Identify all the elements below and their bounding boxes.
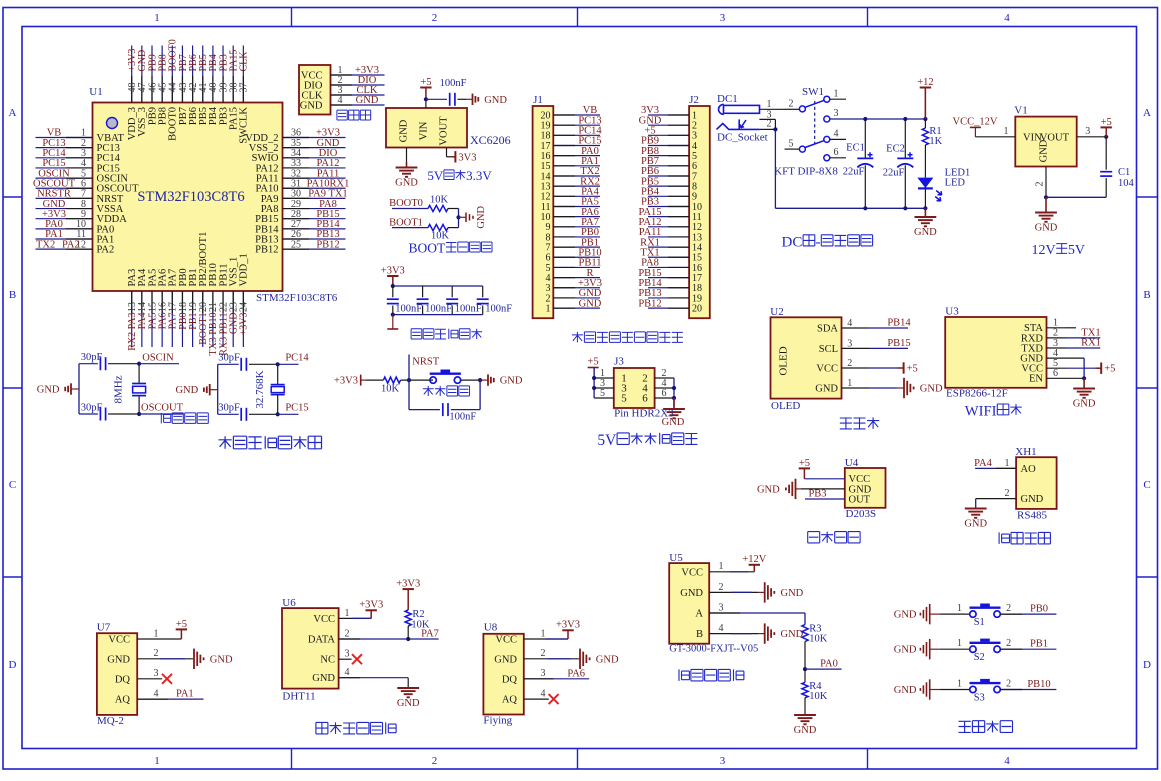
svg-text:D: D xyxy=(9,659,17,671)
svg-text:+5: +5 xyxy=(799,458,810,469)
U1 pin 46 PB9 / net PB9 xyxy=(151,46,153,103)
svg-text:4: 4 xyxy=(847,318,852,329)
wire to reset resistor xyxy=(366,379,383,381)
power GND left of 32k xyxy=(210,389,218,391)
svg-text:VCC: VCC xyxy=(108,635,130,646)
SW1 pin 2 lead xyxy=(785,108,800,110)
svg-text:LED: LED xyxy=(945,178,966,189)
U1 pin 47 VSS_3 / net GND xyxy=(141,46,143,103)
U7 VCC wire to +5 xyxy=(137,638,181,640)
svg-text:PA4: PA4 xyxy=(974,458,992,469)
power GND at BOOT junction rotated xyxy=(459,216,467,218)
title wind direction sensor xyxy=(679,669,689,681)
SW1 pin 3 xyxy=(824,116,830,122)
power GND right of U8 xyxy=(577,658,580,660)
svg-text:PA2: PA2 xyxy=(62,239,80,250)
svg-text:NRST: NRST xyxy=(412,357,439,368)
svg-text:GND: GND xyxy=(476,206,487,229)
J1 pin 15 / net PA1 xyxy=(553,165,600,167)
download port pin 2 DIO / net DIO xyxy=(331,84,385,86)
XH1 pin 2 GND xyxy=(976,498,1016,500)
svg-text:PB0: PB0 xyxy=(1030,604,1048,615)
MCU U1 STM32F103C8T6 body xyxy=(93,103,283,292)
svg-text:GND: GND xyxy=(920,384,943,395)
svg-text:GND: GND xyxy=(484,95,507,106)
svg-text:1: 1 xyxy=(847,378,852,389)
DC1 pin 3 wire xyxy=(759,118,775,120)
electrolytic capacitor EC2 22uF xyxy=(904,119,906,158)
ground below U6 xyxy=(407,687,409,690)
wire S2 to net PB1 xyxy=(1000,648,1056,650)
U5 B wire xyxy=(709,633,759,635)
svg-text:5V: 5V xyxy=(1068,243,1085,258)
svg-text:J2: J2 xyxy=(689,94,699,106)
svg-text:U8: U8 xyxy=(484,622,498,634)
svg-text:2: 2 xyxy=(1035,182,1046,187)
crystal Y 32.768K xyxy=(277,364,279,384)
U5 VCC wire to +12V xyxy=(709,571,754,573)
svg-text:PB14: PB14 xyxy=(887,318,911,329)
svg-text:6: 6 xyxy=(1053,368,1058,379)
power GND right of U7 xyxy=(192,658,195,660)
svg-text:+5: +5 xyxy=(176,619,187,630)
svg-text:3: 3 xyxy=(720,12,726,24)
ground below R4 xyxy=(804,714,806,716)
svg-text:NC: NC xyxy=(320,655,335,666)
svg-text:2: 2 xyxy=(345,628,350,639)
svg-text:PC14: PC14 xyxy=(285,353,309,364)
svg-text:+12V: +12V xyxy=(742,554,766,565)
U1 pin 8 VSSA / net GND xyxy=(36,208,93,210)
power GND left of 8MHz xyxy=(71,388,79,390)
svg-text:GND: GND xyxy=(210,654,233,665)
capacitor C1 104 xyxy=(1105,137,1107,170)
U6 DATA wire / net PA7 xyxy=(339,638,439,640)
J1 pin 13 / net RX2 xyxy=(553,185,600,187)
ground below U3 xyxy=(1083,378,1085,388)
resistor R4 10K xyxy=(804,669,806,682)
power +5 at U4 xyxy=(799,467,810,469)
U1 pin 22 PB11 / net RX3 PB11 xyxy=(222,291,224,347)
U1 pin 12 PA2 / net TX2 PA2 xyxy=(36,248,93,250)
U8 DQ wire / net PA6 xyxy=(524,678,589,680)
svg-text:XC6206: XC6206 xyxy=(470,133,511,147)
svg-text:3: 3 xyxy=(719,602,724,613)
filter caps bottom bus wire xyxy=(393,314,483,316)
J1 pin 8 / net PB0 xyxy=(553,236,600,238)
svg-text:25: 25 xyxy=(291,239,301,250)
svg-text:U2: U2 xyxy=(770,306,783,318)
svg-text:GND: GND xyxy=(1021,494,1044,505)
svg-text:1: 1 xyxy=(834,88,839,99)
J1 pin 20 / net VB xyxy=(553,114,600,116)
svg-text:4: 4 xyxy=(1004,755,1010,767)
svg-text:5: 5 xyxy=(600,388,605,399)
svg-text:12V: 12V xyxy=(1031,243,1055,258)
8MHz bottom wire and cap 30pF xyxy=(79,413,98,415)
U7 MQ-2 body xyxy=(97,633,137,715)
svg-text:2: 2 xyxy=(1006,638,1011,649)
svg-text:22uF: 22uF xyxy=(843,167,865,178)
title xiazaikou xyxy=(337,110,347,120)
svg-text:10K: 10K xyxy=(411,620,430,631)
U1 pin 6 OSCOUT / net OSCOUT xyxy=(36,187,93,189)
title reset circuit xyxy=(423,386,434,396)
svg-text:GT-3000-FXJT--V05: GT-3000-FXJT--V05 xyxy=(669,644,758,655)
U5 body xyxy=(669,563,709,644)
svg-text:U3: U3 xyxy=(945,306,959,318)
U8 VCC wire to +3V3 xyxy=(524,638,568,640)
svg-text:30pF: 30pF xyxy=(218,353,240,364)
svg-text:VCC: VCC xyxy=(495,635,517,646)
net PC14 wire xyxy=(278,363,299,365)
svg-text:SCL: SCL xyxy=(819,344,838,355)
8MHz top wire and cap 30pF xyxy=(79,363,98,365)
ground below DC bus xyxy=(924,208,926,217)
U1 pin 11 PA1 / net PA1 xyxy=(36,238,93,240)
svg-text:2: 2 xyxy=(847,358,852,369)
svg-text:DC1: DC1 xyxy=(717,93,738,105)
regulator U? XC6206 body xyxy=(386,108,467,148)
column tick marks xyxy=(291,8,293,27)
wire SW1 pin3 to +12 bus xyxy=(830,118,926,120)
J1 pin 7 / net PB1 xyxy=(553,246,600,248)
resistor R1 1K xyxy=(924,119,926,128)
svg-text:1K: 1K xyxy=(929,136,942,147)
svg-text:GND: GND xyxy=(794,725,817,736)
svg-text:VCC_12V: VCC_12V xyxy=(953,117,998,128)
svg-text:+12: +12 xyxy=(917,77,933,88)
svg-text:3: 3 xyxy=(720,755,726,767)
svg-text:30pF: 30pF xyxy=(218,403,240,414)
svg-text:5: 5 xyxy=(789,138,794,149)
J2 pin 1 / net 3V3 xyxy=(648,114,689,116)
resistor 10K reset xyxy=(383,377,400,383)
U1 pin 16 PA6 / net PA6 xyxy=(161,291,163,347)
DC socket lower contact symbol xyxy=(717,124,760,130)
svg-text:+3V3: +3V3 xyxy=(334,376,358,387)
filter capacitor 100nF #2 xyxy=(422,286,424,297)
svg-text:1: 1 xyxy=(1004,126,1009,137)
J2 pin 17 / net PB15 xyxy=(648,277,689,279)
svg-text:1: 1 xyxy=(1005,458,1010,469)
svg-text:STM32F103C8T6: STM32F103C8T6 xyxy=(256,292,338,304)
title display xyxy=(840,418,852,429)
svg-text:-: - xyxy=(816,235,821,251)
U1 pin 26 PB13 / net PB13 xyxy=(283,238,346,240)
download port pin 1 VCC / net +3V3 xyxy=(331,74,385,76)
U1 pin 13 PA3 / net RX2 PA3 xyxy=(131,291,133,347)
J2 pin 9 / net PB4 xyxy=(648,195,689,197)
U1 pin 43 PB7 / net PB7 xyxy=(181,46,183,103)
svg-text:GND: GND xyxy=(757,484,780,495)
title MCU pin headers xyxy=(572,332,583,343)
svg-text:10K: 10K xyxy=(809,691,828,702)
U1 pin 3 PC14 / net PC14 xyxy=(36,157,93,159)
wire DC to ground bus vertical xyxy=(774,129,776,208)
U6 GND wire xyxy=(339,677,409,679)
U3 VCC wire to +5 xyxy=(1066,367,1096,369)
svg-text:DQ: DQ xyxy=(115,674,131,685)
J2 pin 16 / net PA8 xyxy=(648,266,689,268)
DC socket barrel symbol xyxy=(724,105,760,113)
svg-text:DQ: DQ xyxy=(502,674,518,685)
J2 pin 12 / net PA12 xyxy=(648,226,689,228)
svg-text:AO: AO xyxy=(1021,464,1037,475)
svg-text:RX1: RX1 xyxy=(1081,338,1101,349)
push button S1 xyxy=(970,611,976,617)
svg-text:PB10: PB10 xyxy=(1027,679,1050,690)
svg-text:10K: 10K xyxy=(381,384,400,395)
U4 VCC pin wire xyxy=(804,478,844,480)
LED1 diode xyxy=(917,178,933,188)
svg-text:D: D xyxy=(1143,659,1151,671)
svg-text:DC: DC xyxy=(782,235,803,251)
svg-text:EN: EN xyxy=(1029,374,1043,385)
crystal 32k left vertical wire xyxy=(217,364,219,414)
svg-text:J1: J1 xyxy=(533,94,543,106)
32k bottom wire and cap 30pF xyxy=(218,413,239,415)
svg-text:C: C xyxy=(1143,479,1150,491)
svg-text:+5: +5 xyxy=(1101,117,1112,128)
svg-text:GND: GND xyxy=(494,654,517,665)
J3 right bus wire xyxy=(673,378,675,407)
J1 pin 16 / net PA0 xyxy=(553,155,600,157)
svg-text:PA0: PA0 xyxy=(820,659,838,670)
V1 LM7805 body xyxy=(1015,117,1076,167)
svg-text:GND: GND xyxy=(894,645,917,656)
net label BOOT0 wire xyxy=(392,208,428,210)
resistor R2 10K xyxy=(405,610,411,626)
svg-text:C: C xyxy=(9,479,16,491)
title crystal circuit xyxy=(161,413,171,424)
svg-text:4: 4 xyxy=(338,95,343,106)
power +5 above XC6206 xyxy=(420,87,431,89)
svg-text:1: 1 xyxy=(957,603,962,614)
U3 GND pin wire xyxy=(1066,357,1084,359)
svg-text:PB12: PB12 xyxy=(638,298,661,309)
svg-text:V1: V1 xyxy=(1014,105,1027,117)
svg-text:4: 4 xyxy=(345,667,350,678)
title independent keys xyxy=(959,721,971,732)
svg-text:RS485: RS485 xyxy=(1017,510,1047,522)
wire button to gnd xyxy=(461,379,481,381)
filter capacitor 100nF #3 xyxy=(451,286,453,297)
svg-text:GND: GND xyxy=(579,298,602,309)
SW1 pin 4 xyxy=(824,136,830,142)
svg-text:A: A xyxy=(1143,107,1151,119)
filter capacitor 100nF #1 xyxy=(392,286,394,297)
SW1 blade 2-1 xyxy=(805,100,824,107)
svg-text:VDD_1: VDD_1 xyxy=(239,253,250,286)
U8 GND wire xyxy=(524,658,577,660)
U3 STA stub wire xyxy=(1066,327,1076,329)
svg-text:3: 3 xyxy=(1085,126,1090,137)
svg-text:EC2: EC2 xyxy=(886,144,905,155)
svg-text:SWCLK: SWCLK xyxy=(239,107,250,144)
U1 pin 35 VSS_2 / net GND xyxy=(283,147,346,149)
svg-text:104: 104 xyxy=(1118,178,1135,189)
svg-text:SW1: SW1 xyxy=(802,86,824,98)
svg-text:GND: GND xyxy=(964,519,987,530)
power GND right of U5 pin4 xyxy=(759,633,765,635)
power +12 xyxy=(920,87,931,89)
SW1 blade 5-4 xyxy=(805,141,824,148)
svg-text:24: 24 xyxy=(239,302,250,312)
J2 pin 15 / net TX1 xyxy=(648,256,689,258)
svg-text:10K: 10K xyxy=(809,634,828,645)
svg-text:4: 4 xyxy=(154,689,159,700)
svg-text:GND: GND xyxy=(1073,399,1096,410)
U1 pin 27 PB14 / net PB14 xyxy=(283,228,346,230)
J2 pin 4 / net PB9 xyxy=(648,144,689,146)
svg-text:1: 1 xyxy=(154,755,160,767)
U7 DQ wire with no-connect xyxy=(137,678,162,680)
capacitor 100nF at XC6206 xyxy=(449,93,451,106)
J1 pin 18 / net PC14 xyxy=(553,134,600,136)
svg-text:VCC: VCC xyxy=(313,614,335,625)
wire BOOT1 res to junction xyxy=(448,227,459,229)
J1 pin 2 / net GND xyxy=(553,297,600,299)
svg-text:3: 3 xyxy=(345,649,350,660)
J1 pin 9 / net PA7 xyxy=(553,226,600,228)
svg-text:GND: GND xyxy=(815,383,838,394)
svg-text:OLED: OLED xyxy=(771,400,800,412)
title wind speed detect xyxy=(999,532,1009,544)
U1 pin 25 PB12 / net PB12 xyxy=(283,248,346,250)
U5 GND wire xyxy=(709,591,759,593)
J2 pin 7 / net PB6 xyxy=(648,175,689,177)
svg-text:2: 2 xyxy=(1005,488,1010,499)
J2 pin 5 / net PB8 xyxy=(648,155,689,157)
svg-text:+3V3: +3V3 xyxy=(396,579,420,590)
power +5 at V1 out xyxy=(1101,126,1112,128)
U1 pin 9 VDDA / net +3V3 xyxy=(36,218,93,220)
DC1 pin 1 wire xyxy=(760,108,785,110)
power GND at U2 GND xyxy=(869,387,897,389)
svg-text:5V: 5V xyxy=(597,432,617,449)
svg-text:B: B xyxy=(696,629,703,640)
J1 pin 19 / net PC13 xyxy=(553,124,600,126)
svg-text:22uF: 22uF xyxy=(883,168,905,179)
J2 pin 19 / net PB13 xyxy=(648,297,689,299)
svg-text:1: 1 xyxy=(154,628,159,639)
filter caps top bus wire xyxy=(393,285,483,287)
svg-text:PB3: PB3 xyxy=(808,489,826,500)
J1 pin 3 / net +3V3 xyxy=(553,287,600,289)
svg-text:U7: U7 xyxy=(97,622,111,634)
svg-text:5: 5 xyxy=(621,393,627,405)
svg-text:3: 3 xyxy=(154,668,159,679)
svg-text:100nF: 100nF xyxy=(485,304,512,315)
svg-text:S1: S1 xyxy=(974,617,985,628)
U1 pin 36 VDD_2 / net +3V3 xyxy=(283,137,346,139)
filter capacitor 100nF #4 xyxy=(482,286,484,297)
power +3V3 above filter caps xyxy=(387,275,398,277)
wire cap to gnd xyxy=(458,98,467,100)
svg-text:10K: 10K xyxy=(430,195,449,206)
svg-text:D203S: D203S xyxy=(846,508,877,520)
svg-text:3: 3 xyxy=(847,338,852,349)
power GND right of U5 pin2 xyxy=(759,591,765,593)
svg-text:S3: S3 xyxy=(974,693,985,704)
svg-text:6: 6 xyxy=(834,147,839,158)
reset push button xyxy=(430,377,436,383)
U1 pin 41 PB5 / net PB5 xyxy=(202,46,204,103)
wire S3 to net PB10 xyxy=(1000,689,1056,691)
svg-text:ESP8266-12F: ESP8266-12F xyxy=(946,388,1008,400)
wire res to NRST junction xyxy=(401,379,434,381)
svg-text:GND: GND xyxy=(781,588,804,599)
svg-text:DHT11: DHT11 xyxy=(282,691,315,703)
svg-text:PC15: PC15 xyxy=(285,403,308,414)
J2 pin 20 / net PB12 xyxy=(648,307,689,309)
svg-text:DATA: DATA xyxy=(308,635,336,646)
resistor 10K BOOT0 xyxy=(428,205,448,211)
svg-text:+3V3: +3V3 xyxy=(359,600,383,611)
svg-text:6: 6 xyxy=(642,393,648,405)
svg-text:U1: U1 xyxy=(89,86,102,98)
V1 pin 3 wire xyxy=(1077,136,1107,138)
svg-text:B: B xyxy=(9,289,16,301)
ground below V1 xyxy=(1045,197,1047,212)
electrolytic capacitor EC1 22uF xyxy=(864,119,866,158)
svg-text:J3: J3 xyxy=(614,356,624,368)
svg-text:30pF: 30pF xyxy=(81,402,103,413)
U1 pin 19 PB1 / net PB1 xyxy=(192,291,194,347)
XC6206 GND pin wire xyxy=(406,148,408,163)
svg-text:SDA: SDA xyxy=(817,323,838,334)
U6 VCC wire to +3V3 xyxy=(339,617,372,619)
svg-text:PB1: PB1 xyxy=(1030,639,1048,650)
wire VIN xyxy=(425,99,427,108)
svg-text:EC1: EC1 xyxy=(846,143,865,154)
svg-text:1: 1 xyxy=(767,99,772,110)
svg-text:+5: +5 xyxy=(420,77,431,88)
crystal Y 8MHz xyxy=(138,364,140,384)
svg-text:PA2: PA2 xyxy=(97,245,115,256)
svg-text:+5: +5 xyxy=(907,364,918,375)
U1 pin 14 PA4 / net PA4 xyxy=(141,291,143,347)
resistor 10K BOOT1 xyxy=(428,225,448,231)
svg-text:GND: GND xyxy=(1039,139,1050,162)
svg-text:GND: GND xyxy=(175,385,198,396)
crystal 8MHz left vertical wire xyxy=(78,364,80,414)
net PB14 wire xyxy=(869,327,908,329)
svg-text:MQ-2: MQ-2 xyxy=(97,715,124,727)
svg-text:GND: GND xyxy=(894,685,917,696)
J1 pin 14 / net TX2 xyxy=(553,175,600,177)
svg-text:PA1: PA1 xyxy=(176,689,194,700)
J2 pin 10 / net PB3 xyxy=(648,205,689,207)
U1 pin 48 VDD_3 / net +3V3 xyxy=(131,46,133,103)
svg-text:OUT: OUT xyxy=(849,494,871,505)
J1 pin 6 / net PB10 xyxy=(553,256,600,258)
svg-text:TX2: TX2 xyxy=(36,239,55,250)
svg-text:OSCIN: OSCIN xyxy=(142,352,174,363)
svg-text:GND: GND xyxy=(781,629,804,640)
svg-text:Pin HDR2X3: Pin HDR2X3 xyxy=(614,408,674,420)
svg-text:3V3: 3V3 xyxy=(458,152,476,163)
title temperature humidity sensor xyxy=(316,722,328,734)
U1 pin 4 PC15 / net PC15 xyxy=(36,167,93,169)
U8 body xyxy=(483,634,523,715)
J1 pin 11 / net PA5 xyxy=(553,205,600,207)
J1 pin 17 / net PC15 xyxy=(553,144,600,146)
wire GND to S1 xyxy=(940,613,970,615)
U4 D203S body xyxy=(845,468,886,508)
SW1 dashed link xyxy=(814,101,816,145)
